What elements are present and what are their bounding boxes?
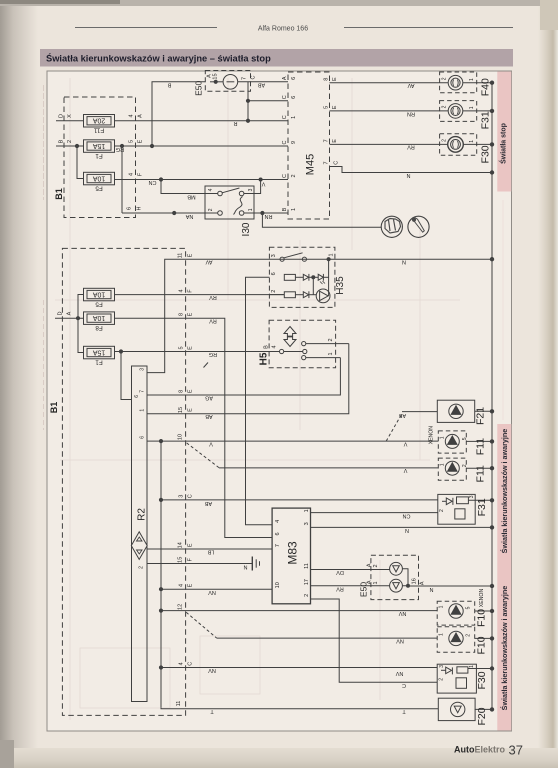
wire: riser to E50 <box>152 82 205 146</box>
svg-text:4: 4 <box>208 188 214 191</box>
svg-text:CN: CN <box>403 512 411 518</box>
svg-text:MB: MB <box>187 194 196 200</box>
wire: M45 pin5 to stop lamp F31 <box>330 110 449 112</box>
svg-text:RG: RG <box>116 146 124 152</box>
svg-text:C: C <box>282 140 288 144</box>
wire: drop to R2 left pin <box>121 352 132 400</box>
flasher diamond symbol <box>131 532 147 560</box>
svg-text:E: E <box>188 312 194 316</box>
turn lamp F10a (dashed box) <box>437 601 475 625</box>
svg-text:F11: F11 <box>475 465 487 482</box>
hazard switch H35 (dashed box) <box>269 247 335 307</box>
turn lamp F11a (dashed box) <box>438 431 466 453</box>
wire: F11 output to M45 pin 1 <box>115 120 289 122</box>
svg-text:Światła kierunkowskazów i awar: Światła kierunkowskazów i awaryjne <box>500 429 509 554</box>
wire: R2 pin6 to indicator bus <box>147 440 161 442</box>
svg-text:10A: 10A <box>92 314 105 321</box>
wire: F11 input stub pin D/X <box>56 120 84 122</box>
svg-text:X: X <box>67 114 73 118</box>
svg-text:1: 1 <box>440 463 446 466</box>
svg-text:7: 7 <box>140 390 146 393</box>
svg-text:2: 2 <box>462 464 468 467</box>
svg-text:LB: LB <box>207 549 214 555</box>
svg-text:1: 1 <box>440 436 446 439</box>
svg-text:XENON: XENON <box>428 426 434 445</box>
turn lamp F11b (dashed box) <box>438 458 466 480</box>
wire: I30 pin1 to M45 pin 1b <box>254 212 288 214</box>
svg-text:3: 3 <box>271 254 277 257</box>
turn lamp F10b (dashed box) <box>437 627 475 653</box>
svg-text:AB: AB <box>399 412 407 418</box>
svg-text:B: B <box>167 82 171 88</box>
svg-text:B1: B1 <box>54 188 64 200</box>
wire: M83 pin1 CN row to F31 pin 2 <box>311 512 438 514</box>
svg-text:E: E <box>188 408 194 412</box>
svg-text:F1: F1 <box>95 358 103 365</box>
svg-text:6: 6 <box>291 77 297 80</box>
stop lamp F40 (dashed box) <box>440 72 477 93</box>
hazard lamp unit H5 (dashed box) <box>269 320 336 368</box>
svg-text:10: 10 <box>178 434 184 440</box>
schematic frame <box>47 71 512 731</box>
svg-text:2: 2 <box>328 338 334 341</box>
wire: row to turn lamp F10b <box>217 637 438 639</box>
H35 row 2 internals <box>269 294 284 296</box>
fuse box B1 (lower) <box>62 248 185 715</box>
svg-text:F20: F20 <box>476 707 488 725</box>
wire: branch F1 input to F5 input <box>77 146 84 179</box>
H35 resistor row 6 <box>284 274 295 280</box>
svg-text:F8: F8 <box>95 324 103 331</box>
svg-text:Światła kierunkowskazów i awar: Światła kierunkowskazów i awaryjne – świ… <box>46 53 271 64</box>
svg-text:H5: H5 <box>259 352 270 365</box>
svg-text:E: E <box>188 253 194 257</box>
svg-text:N: N <box>406 172 410 178</box>
svg-text:6: 6 <box>275 532 281 535</box>
svg-text:4: 4 <box>179 584 185 587</box>
svg-text:AB: AB <box>205 500 213 506</box>
lamp symbol E50 <box>223 75 238 90</box>
svg-text:7: 7 <box>242 77 248 80</box>
wire: F5 output to H35 pin 2 <box>115 294 285 296</box>
svg-text:11: 11 <box>178 253 184 259</box>
svg-text:15A: 15A <box>92 348 105 355</box>
fuse F5 10A (lower) <box>84 288 115 301</box>
svg-text:5: 5 <box>324 106 330 109</box>
svg-text:N: N <box>402 259 406 265</box>
svg-text:R2: R2 <box>137 508 148 521</box>
wire: M83 pin2 C row to F30 pin 2 <box>311 599 438 682</box>
svg-text:9: 9 <box>291 141 297 144</box>
svg-text:NV: NV <box>398 610 406 616</box>
svg-text:7: 7 <box>324 161 330 164</box>
wire: M83 pin3 N row to bus <box>311 526 493 528</box>
wire: F8 output riser to M83 pin 6 <box>115 318 273 537</box>
svg-text:16: 16 <box>412 578 418 584</box>
stop lamp F30 (dashed box) <box>440 134 477 156</box>
svg-text:CN: CN <box>149 179 157 185</box>
svg-text:C: C <box>188 662 194 666</box>
svg-text:A: A <box>67 311 73 315</box>
svg-text:E: E <box>138 139 144 143</box>
wire: R2 pin7 AG row to H5 pin1 riser <box>147 358 340 395</box>
svg-text:15: 15 <box>178 407 184 413</box>
svg-text:RN: RN <box>407 110 415 116</box>
svg-text:Światła kierunkowskazów i awar: Światła kierunkowskazów i awaryjne <box>500 586 509 711</box>
wire: drop to indicator icon <box>262 213 381 227</box>
node: branch to R2 supply <box>119 350 122 353</box>
ground N <box>251 557 253 571</box>
svg-text:A: A <box>138 114 144 118</box>
svg-text:1: 1 <box>140 409 146 412</box>
svg-text:V: V <box>403 441 407 447</box>
fuse F11 20A <box>84 115 115 128</box>
svg-text:6: 6 <box>271 272 277 275</box>
svg-text:AB: AB <box>205 413 213 419</box>
wire: V row to turn lamp F11a <box>161 440 438 442</box>
svg-text:B: B <box>59 139 65 143</box>
wire: B1 lower input stub D/A <box>55 317 84 319</box>
svg-text:1: 1 <box>469 665 475 668</box>
svg-text:C: C <box>282 174 288 178</box>
svg-text:NV: NV <box>208 589 216 595</box>
svg-text:10A: 10A <box>92 290 105 297</box>
wire: R2 pin14 LB row to M83 pin 7 <box>147 548 272 550</box>
stop lamp F31 (dashed box) <box>440 101 477 122</box>
svg-text:4: 4 <box>179 662 185 665</box>
wire: R2 pin3 riser to B1 pin11 and H35 pin 3 / N row <box>147 259 492 372</box>
svg-text:5: 5 <box>466 606 472 609</box>
svg-text:V: V <box>209 441 213 447</box>
wire: E50 output to M45 pin 6 <box>238 81 288 83</box>
svg-text:C: C <box>334 161 340 165</box>
svg-text:6: 6 <box>127 207 133 210</box>
svg-text:3: 3 <box>248 188 254 191</box>
svg-text:10: 10 <box>275 582 281 588</box>
svg-text:2: 2 <box>441 139 447 142</box>
rear lamp F20 (solid box) <box>438 698 475 720</box>
rear lamp unit F30 (solid box) <box>437 664 476 693</box>
svg-text:V: V <box>403 467 407 473</box>
svg-text:N: N <box>243 564 247 570</box>
svg-text:15: 15 <box>178 557 184 563</box>
H35 LED row 6 <box>318 274 323 280</box>
svg-text:8: 8 <box>324 78 330 81</box>
svg-text:F10: F10 <box>475 609 487 627</box>
svg-text:N: N <box>429 586 433 592</box>
H5 double arrow icon <box>284 327 296 337</box>
svg-text:C: C <box>402 682 406 688</box>
svg-text:8: 8 <box>179 390 185 393</box>
wire: F1 output to M45 pin 9 <box>115 145 289 147</box>
svg-text:2: 2 <box>304 594 310 597</box>
wire: pin12 NV row to turn lamp F10a <box>161 610 437 612</box>
svg-text:14: 14 <box>178 542 184 548</box>
wire: B1 pin6/H to I30 pin 2 <box>122 212 205 214</box>
H35 internal vertical <box>328 259 330 296</box>
svg-text:17: 17 <box>304 579 310 585</box>
return bus (right) <box>491 83 493 710</box>
fuse F1 15A (upper) <box>84 140 115 153</box>
svg-text:F5: F5 <box>95 300 103 307</box>
svg-text:2: 2 <box>441 105 447 108</box>
wire: M45 pin7b C/N to return bus <box>330 167 493 173</box>
svg-text:H35: H35 <box>335 276 346 295</box>
wire: F21 feed <box>402 411 437 413</box>
svg-text:F30: F30 <box>480 145 492 163</box>
wire: R2 pin1 AB row to H5 pin2 riser <box>147 344 349 414</box>
icon: column stalk <box>408 216 429 237</box>
svg-text:E: E <box>332 77 338 81</box>
svg-text:4: 4 <box>129 173 135 176</box>
svg-text:8: 8 <box>179 313 185 316</box>
svg-text:RV: RV <box>209 318 217 324</box>
svg-text:1: 1 <box>373 581 379 584</box>
H35 diode row 6 <box>303 274 308 280</box>
svg-text:12: 12 <box>178 604 184 610</box>
svg-text:15A: 15A <box>92 142 105 149</box>
svg-text:RG: RG <box>209 351 217 357</box>
wire: M45 pin8 to stop lamp F40 <box>330 82 449 84</box>
E50 lower internal join <box>402 569 408 586</box>
lamp E50 (upper, dashed box) <box>205 71 250 92</box>
svg-text:E: E <box>332 139 338 143</box>
svg-text:2: 2 <box>439 678 445 681</box>
svg-text:C: C <box>188 494 194 498</box>
svg-text:V: V <box>261 180 265 186</box>
svg-text:RV: RV <box>407 144 415 150</box>
svg-text:1: 1 <box>291 208 297 211</box>
svg-text:2: 2 <box>271 290 277 293</box>
body computer M83 <box>272 508 310 604</box>
svg-text:5: 5 <box>179 346 185 349</box>
svg-text:I30: I30 <box>241 222 252 236</box>
svg-text:1: 1 <box>248 208 254 211</box>
svg-text:3: 3 <box>140 368 146 371</box>
control unit M45 (dashed box) <box>288 72 330 219</box>
svg-text:F31: F31 <box>480 111 492 129</box>
svg-text:NV: NV <box>396 638 404 644</box>
fuse F5 10A (upper) <box>84 172 115 185</box>
wire: dashed diagonal pin12 to F10b row <box>186 612 216 638</box>
svg-text:11: 11 <box>176 701 182 707</box>
svg-text:RV: RV <box>336 585 344 591</box>
wire: NV2 row to rear lamp F30 pin 3 <box>161 667 437 669</box>
svg-text:6: 6 <box>140 436 146 439</box>
svg-text:F11: F11 <box>93 127 104 134</box>
fuse F8 10A <box>84 312 115 325</box>
svg-text:DV: DV <box>336 569 344 575</box>
svg-text:2: 2 <box>67 140 73 143</box>
wire: E50 drop to F11 row <box>247 82 249 121</box>
fuse box B1 (upper) <box>64 97 136 218</box>
turn lamp F21 (solid box) <box>437 400 474 422</box>
svg-text:5: 5 <box>129 140 135 143</box>
svg-text:7: 7 <box>275 544 281 547</box>
svg-text:AB: AB <box>258 82 266 88</box>
H35 buzzer <box>316 289 330 303</box>
svg-text:1: 1 <box>439 605 445 608</box>
svg-text:1: 1 <box>469 140 475 143</box>
svg-text:NV: NV <box>395 670 403 676</box>
svg-text:E: E <box>188 583 194 587</box>
svg-text:H: H <box>137 206 143 210</box>
faint bleed-through texture lines <box>69 78 71 720</box>
svg-text:37: 37 <box>509 743 523 758</box>
svg-text:B1: B1 <box>49 402 59 414</box>
svg-text:C: C <box>282 115 288 119</box>
svg-text:1: 1 <box>329 253 335 256</box>
svg-text:F1: F1 <box>95 152 103 159</box>
svg-text:B: B <box>282 207 288 211</box>
svg-text:E: E <box>188 543 194 547</box>
svg-text:4: 4 <box>275 520 281 523</box>
pink strip: kierunkowskazy <box>497 424 511 731</box>
svg-text:F10: F10 <box>475 636 487 654</box>
svg-text:20A: 20A <box>92 117 105 124</box>
svg-text:F30: F30 <box>476 671 488 689</box>
svg-text:D: D <box>58 311 64 315</box>
svg-text:B: B <box>264 345 270 349</box>
side repeater F31 (solid box) <box>438 494 475 524</box>
svg-text:2: 2 <box>466 634 472 637</box>
svg-text:XENON: XENON <box>479 589 485 608</box>
svg-text:M83: M83 <box>286 541 300 565</box>
svg-text:F11: F11 <box>475 438 487 455</box>
fuse F1 15A (lower) <box>84 346 115 359</box>
svg-text:11: 11 <box>304 563 310 569</box>
svg-text:3: 3 <box>304 522 310 525</box>
svg-text:5: 5 <box>462 437 468 440</box>
svg-text:E: E <box>332 105 338 109</box>
svg-text:1: 1 <box>469 106 475 109</box>
wire: tee to M45 second pin <box>248 100 288 102</box>
svg-text:AV: AV <box>407 82 414 88</box>
svg-text:F21: F21 <box>475 407 487 425</box>
svg-text:3: 3 <box>469 495 475 498</box>
wire: M83 pin17 to E50 lower <box>311 585 391 587</box>
svg-text:1: 1 <box>469 78 475 81</box>
svg-text:6: 6 <box>134 395 140 398</box>
svg-text:AutoElektro: AutoElektro <box>454 745 506 755</box>
lamp unit E50 (lower, dashed box) <box>371 555 419 599</box>
svg-text:C: C <box>251 75 257 79</box>
wire: F5 output to M45 pin 2 <box>115 179 289 181</box>
svg-text:2: 2 <box>373 564 379 567</box>
header: Alfa Romeo 166 <box>75 27 217 29</box>
svg-text:Alfa Romeo 166: Alfa Romeo 166 <box>258 26 308 33</box>
svg-text:D: D <box>59 114 65 118</box>
svg-text:F5: F5 <box>95 184 103 191</box>
svg-text:E50: E50 <box>194 80 204 95</box>
svg-text:1: 1 <box>328 352 334 355</box>
svg-text:R: R <box>233 120 237 126</box>
svg-text:1: 1 <box>291 116 297 119</box>
H5 contacts <box>280 349 284 353</box>
svg-text:2: 2 <box>208 208 214 211</box>
wire: drop to I30 pin 4 (MB) <box>161 180 205 194</box>
pink strip: swiatla stop <box>497 72 511 192</box>
svg-text:AG: AG <box>205 395 213 401</box>
svg-text:M45: M45 <box>305 154 317 175</box>
svg-text:4: 4 <box>129 114 135 117</box>
svg-text:A: A <box>367 563 373 567</box>
wire: F1 output to H5 pin 4 <box>115 351 280 353</box>
svg-text:RV: RV <box>209 294 217 300</box>
title bar <box>40 49 513 67</box>
svg-text:A: A <box>367 580 373 584</box>
switch I30 <box>205 186 254 219</box>
wire: M45 pin7 to stop lamp F30 <box>330 143 448 145</box>
svg-text:6: 6 <box>291 96 297 99</box>
wire: R2 pin15 to ground <box>147 563 252 565</box>
svg-text:A: A <box>282 76 288 80</box>
svg-text:NV: NV <box>208 667 216 673</box>
svg-text:N: N <box>405 527 409 533</box>
svg-text:1: 1 <box>304 509 310 512</box>
wire: M83 pin11 to E50 lower <box>311 569 391 571</box>
node: F1 out junction to E50 riser <box>150 144 153 147</box>
svg-text:F40: F40 <box>480 78 492 96</box>
svg-text:C: C <box>282 95 288 99</box>
wire: E50 lower N to bus <box>408 585 492 587</box>
svg-text:7: 7 <box>324 139 330 142</box>
wire: AB row to side repeater F31 <box>161 499 438 501</box>
svg-text:2: 2 <box>139 566 145 569</box>
wire: input branch to F5 and F1 <box>78 295 84 353</box>
svg-text:2: 2 <box>439 509 445 512</box>
svg-text:E: E <box>188 346 194 350</box>
svg-text:10A: 10A <box>92 174 105 181</box>
svg-text:1: 1 <box>439 633 445 636</box>
svg-text:NA: NA <box>185 213 193 219</box>
svg-text:Światła stop: Światła stop <box>498 123 507 164</box>
svg-text:3: 3 <box>439 665 445 668</box>
wire: V2 row to turn lamp F11b <box>219 467 438 469</box>
svg-text:4: 4 <box>272 345 278 348</box>
wire into H35 pin 6 from riser <box>246 277 273 524</box>
svg-text:15: 15 <box>213 73 219 79</box>
indicator bus vertical <box>160 441 162 708</box>
svg-text:RN: RN <box>265 213 273 219</box>
svg-text:2: 2 <box>441 77 447 80</box>
wire: bottom T rail to lamp F20 <box>161 708 438 709</box>
svg-text:3: 3 <box>179 495 185 498</box>
svg-text:2: 2 <box>291 174 297 177</box>
svg-text:A: A <box>420 581 426 585</box>
svg-text:4: 4 <box>179 289 185 292</box>
faint bleed marks left margin <box>43 85 45 200</box>
wire: F1 input stub pin B/2 <box>56 145 84 147</box>
wire: dashed diagonal pin10 to V2 row <box>187 443 219 468</box>
wire: I30 pin3 up to F5 row <box>254 180 261 194</box>
flasher relay R2 <box>132 366 148 702</box>
icon: cluster indicator <box>381 216 402 237</box>
stray tick mark <box>204 363 209 368</box>
wire: NV row to M83 pin 10 <box>161 588 272 590</box>
node: F1 out junction to H row <box>120 144 123 147</box>
wire: dashed diagonal to F21 row <box>386 414 402 442</box>
node: tee to I30 pin 4 <box>159 178 162 181</box>
svg-text:AV: AV <box>205 259 212 265</box>
wire: drop to B1 pin 6/H row <box>121 146 123 213</box>
svg-text:E: E <box>188 389 194 393</box>
svg-text:F31: F31 <box>476 498 488 516</box>
